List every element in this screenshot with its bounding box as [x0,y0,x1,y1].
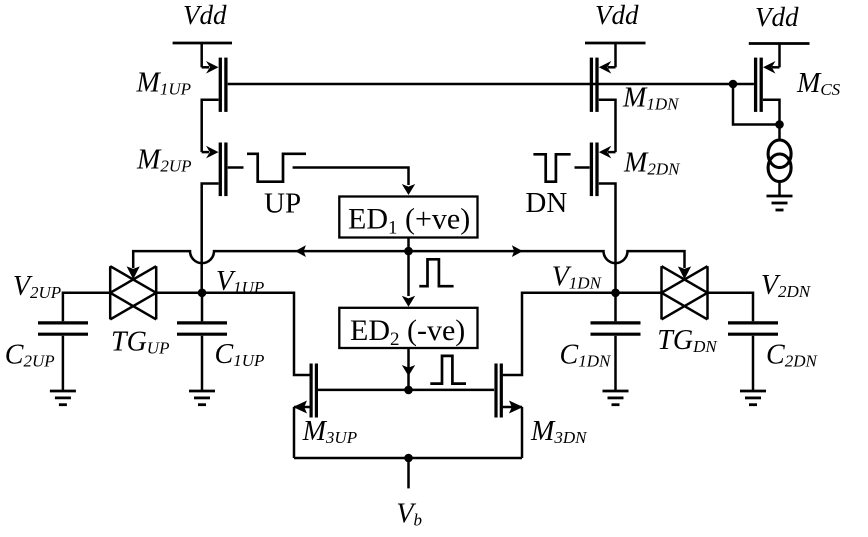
arrowhead into TG_DN [678,266,691,279]
wire ED1 output [407,238,410,252]
DN pulse waveform [533,154,570,181]
svg-text:C1DN: C1DN [560,340,612,371]
svg-text:M2UP: M2UP [136,145,192,176]
edge detector ED1 box [339,197,477,238]
svg-text:V2DN: V2DN [761,270,812,301]
transmission gate TG_DN [662,266,708,319]
svg-text:C1UP: C1UP [215,339,265,370]
current source [768,140,791,182]
wire TG_UP to node V1UP [156,292,202,295]
node dot Vb [404,454,413,463]
power rail Vdd right [749,44,810,68]
svg-text:C2DN: C2DN [766,340,818,371]
svg-text:MCS: MCS [796,68,841,99]
transistor M2DN [591,143,615,197]
node dot M3 gate [404,386,413,395]
gate mirror wire M1UP-M1DN-MCS [228,83,754,86]
pulse symbol below ED2 [430,356,466,384]
wire Vb stub [407,458,410,488]
svg-text:Vdd: Vdd [183,0,227,30]
wire M1DN drain to M2DN source [599,100,616,152]
ground under C2DN [740,391,766,405]
wire V1UP to M3UP drain [202,293,310,375]
wire M3 gate line [318,389,494,392]
transistor MCS [756,58,780,112]
wire V1DN to TG_DN [616,292,662,295]
svg-text:M3DN: M3DN [530,416,588,447]
wire ED2 output to M3 gates [402,347,415,390]
node dot MCS gate [729,80,738,89]
wire M2UP gate stub [228,166,244,169]
node V2DN wire [708,293,754,322]
edge detector ED2 box [339,308,477,348]
svg-text:ED2 (-ve): ED2 (-ve) [350,314,465,350]
wire M2DN drain to node V1DN [599,184,616,293]
wire UP signal to ED1 input [293,168,416,196]
svg-text:TGDN: TGDN [657,325,718,356]
svg-text:DN: DN [525,187,567,219]
wire M2UP drain to node V1UP [202,184,219,293]
capacitor C1DN [591,293,641,391]
wire M3UP source down [293,407,296,458]
wire M3DN source down [521,407,524,458]
svg-text:ED1 (+ve): ED1 (+ve) [348,203,470,239]
wire current source to ground [778,182,781,196]
ground under C2UP [50,391,76,405]
tail rail wire [294,457,522,460]
ground under current source [767,196,793,210]
svg-text:M1UP: M1UP [136,68,192,99]
transistor M1UP [202,58,226,112]
wire MCS diode connection [733,84,780,125]
node V2UP wire [63,293,110,322]
svg-text:V1DN: V1DN [552,262,603,293]
transmission gate TG_UP [110,266,156,319]
svg-text:V2UP: V2UP [13,271,61,302]
power rail Vdd left [173,43,232,67]
capacitor C2DN [728,323,778,391]
svg-text:M2DN: M2DN [623,148,681,179]
right direction arrow [512,245,523,257]
transistor M3UP [293,364,316,418]
transistor M1DN [591,58,615,112]
wire V1DN to M3DN drain [503,293,616,375]
svg-text:Vdd: Vdd [595,0,639,30]
wire M2DN gate stub [575,166,590,169]
wire MCS drain [763,100,780,141]
svg-text:Vdd: Vdd [755,2,799,32]
node dot MCS drain [775,120,784,129]
svg-text:TGUP: TGUP [111,327,169,358]
node dot V1DN [611,289,620,298]
power rail Vdd middle [585,43,646,67]
arrowhead into TG_UP [127,266,140,279]
left direction arrow [295,245,306,257]
capacitor C2UP [38,323,88,391]
transistor M3DN [496,364,523,418]
ground under C1UP [189,391,215,405]
node dot ED1 output [404,247,413,256]
control wire right branch with hop [409,251,685,268]
transistor M2UP [202,143,226,197]
svg-text:M3UP: M3UP [302,416,358,447]
svg-text:Vb: Vb [396,499,422,530]
svg-text:UP: UP [264,187,301,219]
wire M1UP drain to M2UP source [202,100,219,152]
svg-text:C2UP: C2UP [5,340,55,371]
control wire left branch with hop [133,251,408,268]
ground under C1DN [603,391,629,405]
pulse symbol between ED1 and ED2 [419,259,453,286]
svg-text:M1DN: M1DN [622,83,680,114]
wire ED1 to ED2 [402,251,415,307]
UP pulse waveform [247,154,306,182]
capacitor C1UP [177,293,227,391]
node dot V1UP [198,289,207,298]
